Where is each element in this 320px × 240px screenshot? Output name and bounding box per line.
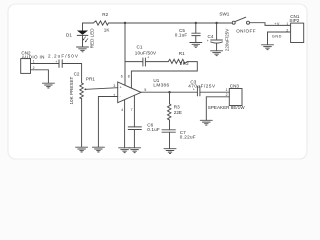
svg-text:4: 4 (121, 108, 123, 112)
svg-text:2: 2 (113, 93, 115, 97)
capacitor C1 branch (125, 61, 143, 63)
svg-text:2: 2 (286, 29, 288, 33)
wire C7 to ground (169, 132, 171, 148)
capacitor C2 (59, 60, 62, 68)
svg-text:6: 6 (121, 75, 123, 79)
svg-text:0.1uF: 0.1uF (175, 33, 188, 38)
wire C1 to R1 (145, 61, 168, 63)
svg-text:10K PRESET: 10K PRESET (69, 76, 74, 104)
svg-text:1K: 1K (104, 28, 111, 33)
svg-text:D1: D1 (66, 33, 72, 38)
wire C3 to CN3 (200, 91, 229, 93)
capacitor C4 (211, 23, 223, 51)
svg-text:3: 3 (113, 84, 115, 88)
ground (CN2) (42, 83, 54, 88)
svg-text:1: 1 (33, 60, 35, 64)
wire LED drop (82, 23, 84, 31)
wire C2 to PR1 (62, 64, 81, 83)
svg-text:2: 2 (226, 93, 228, 97)
ground (CN3) (200, 120, 212, 125)
svg-text:0.1uF: 0.1uF (147, 127, 160, 132)
svg-text:+: + (193, 88, 195, 92)
wire R1 to pin8 (U-route) (131, 62, 197, 89)
svg-text:LM386: LM386 (153, 82, 169, 87)
svg-text:R2: R2 (102, 12, 108, 17)
capacitor C3 (197, 87, 200, 96)
ground (C6) (129, 148, 141, 153)
ground (PR1) (76, 147, 88, 152)
svg-text:2.2uF/50V: 2.2uF/50V (48, 54, 79, 59)
wire CN3 pin2 to ground (206, 97, 229, 120)
ground (C4) (211, 51, 223, 56)
resistor R1 (168, 59, 187, 63)
svg-text:SIP2: SIP2 (289, 18, 299, 23)
border frame (8, 4, 307, 159)
ground (CN1) (262, 45, 274, 50)
svg-text:ON/OFF: ON/OFF (236, 29, 256, 34)
svg-text:2: 2 (33, 66, 35, 70)
svg-text:5: 5 (144, 88, 146, 92)
wire top rail mid (109, 22, 233, 24)
wire C6 to ground (133, 130, 135, 148)
ground (C5) (190, 43, 202, 48)
svg-text:PR1: PR1 (86, 76, 95, 81)
resistor R2 (93, 21, 108, 25)
switch SW1 (232, 17, 249, 24)
wire PR1 bottom to ground (81, 99, 83, 147)
op-amp U1 triangle (118, 82, 141, 103)
svg-text:10uF/50V: 10uF/50V (135, 51, 157, 56)
wire pin6 vertical (124, 23, 126, 85)
wire after switch to CN1 (250, 23, 291, 26)
svg-text:-: - (120, 95, 121, 99)
wire CN2 pin2 to ground (31, 70, 49, 83)
wire output rail (141, 91, 197, 93)
svg-text:+: + (120, 86, 122, 90)
ground (LED) (77, 47, 89, 52)
ground (pin2) (92, 147, 104, 152)
svg-text:+: + (55, 60, 57, 64)
svg-text:R1: R1 (179, 51, 185, 56)
wire CN1 pin2 to ground (268, 32, 291, 45)
svg-text:+: + (147, 55, 149, 59)
svg-text:0.22uF: 0.22uF (180, 134, 196, 139)
wire LED cathode (82, 35, 84, 46)
svg-text:AUDIO IN: AUDIO IN (22, 54, 45, 59)
svg-text:220uF/25V: 220uF/25V (225, 28, 230, 51)
svg-text:7: 7 (131, 108, 133, 112)
svg-text:C2: C2 (74, 72, 80, 77)
svg-text:CN3: CN3 (230, 84, 240, 89)
preset PR1 (80, 83, 118, 99)
connector CN2 box (21, 59, 31, 74)
connector CN3 box (229, 89, 242, 106)
svg-text:22E: 22E (174, 110, 182, 115)
svg-text:8: 8 (128, 75, 130, 79)
wire R3 to C7 (169, 121, 171, 130)
connector CN1 box (291, 23, 304, 42)
node V+ junction (pin6 tap) (124, 22, 126, 24)
ground (pin4) (119, 148, 131, 153)
svg-text:+V: +V (274, 22, 280, 26)
wire pin7 to C6 (133, 95, 135, 127)
wire top rail left (83, 22, 94, 24)
svg-text:1: 1 (286, 22, 288, 26)
svg-text:GND: GND (272, 35, 282, 39)
wire pin2 input to ground (98, 97, 117, 148)
capacitor C6 (128, 127, 141, 130)
svg-text:SW1: SW1 (219, 11, 229, 16)
wire pin4 to ground (124, 100, 126, 148)
svg-text:SPEAKER 8E/1W: SPEAKER 8E/1W (208, 105, 245, 110)
node R3 tap (168, 91, 170, 93)
svg-text:+: + (207, 39, 209, 43)
svg-text:1: 1 (226, 88, 228, 92)
ground (C7) (164, 149, 176, 154)
capacitor C5 (192, 23, 200, 42)
svg-text:R3: R3 (174, 104, 180, 109)
node C5 tap (195, 22, 197, 24)
svg-text:C1: C1 (137, 44, 143, 49)
node C4 tap (215, 22, 217, 24)
wire CN2 pin1 to C2 (31, 63, 60, 65)
capacitor C7 (162, 130, 175, 132)
LED D1 (77, 31, 88, 43)
resistor R3 (168, 92, 171, 120)
svg-text:2K2: 2K2 (180, 61, 189, 66)
svg-text:RED LED: RED LED (90, 28, 95, 49)
